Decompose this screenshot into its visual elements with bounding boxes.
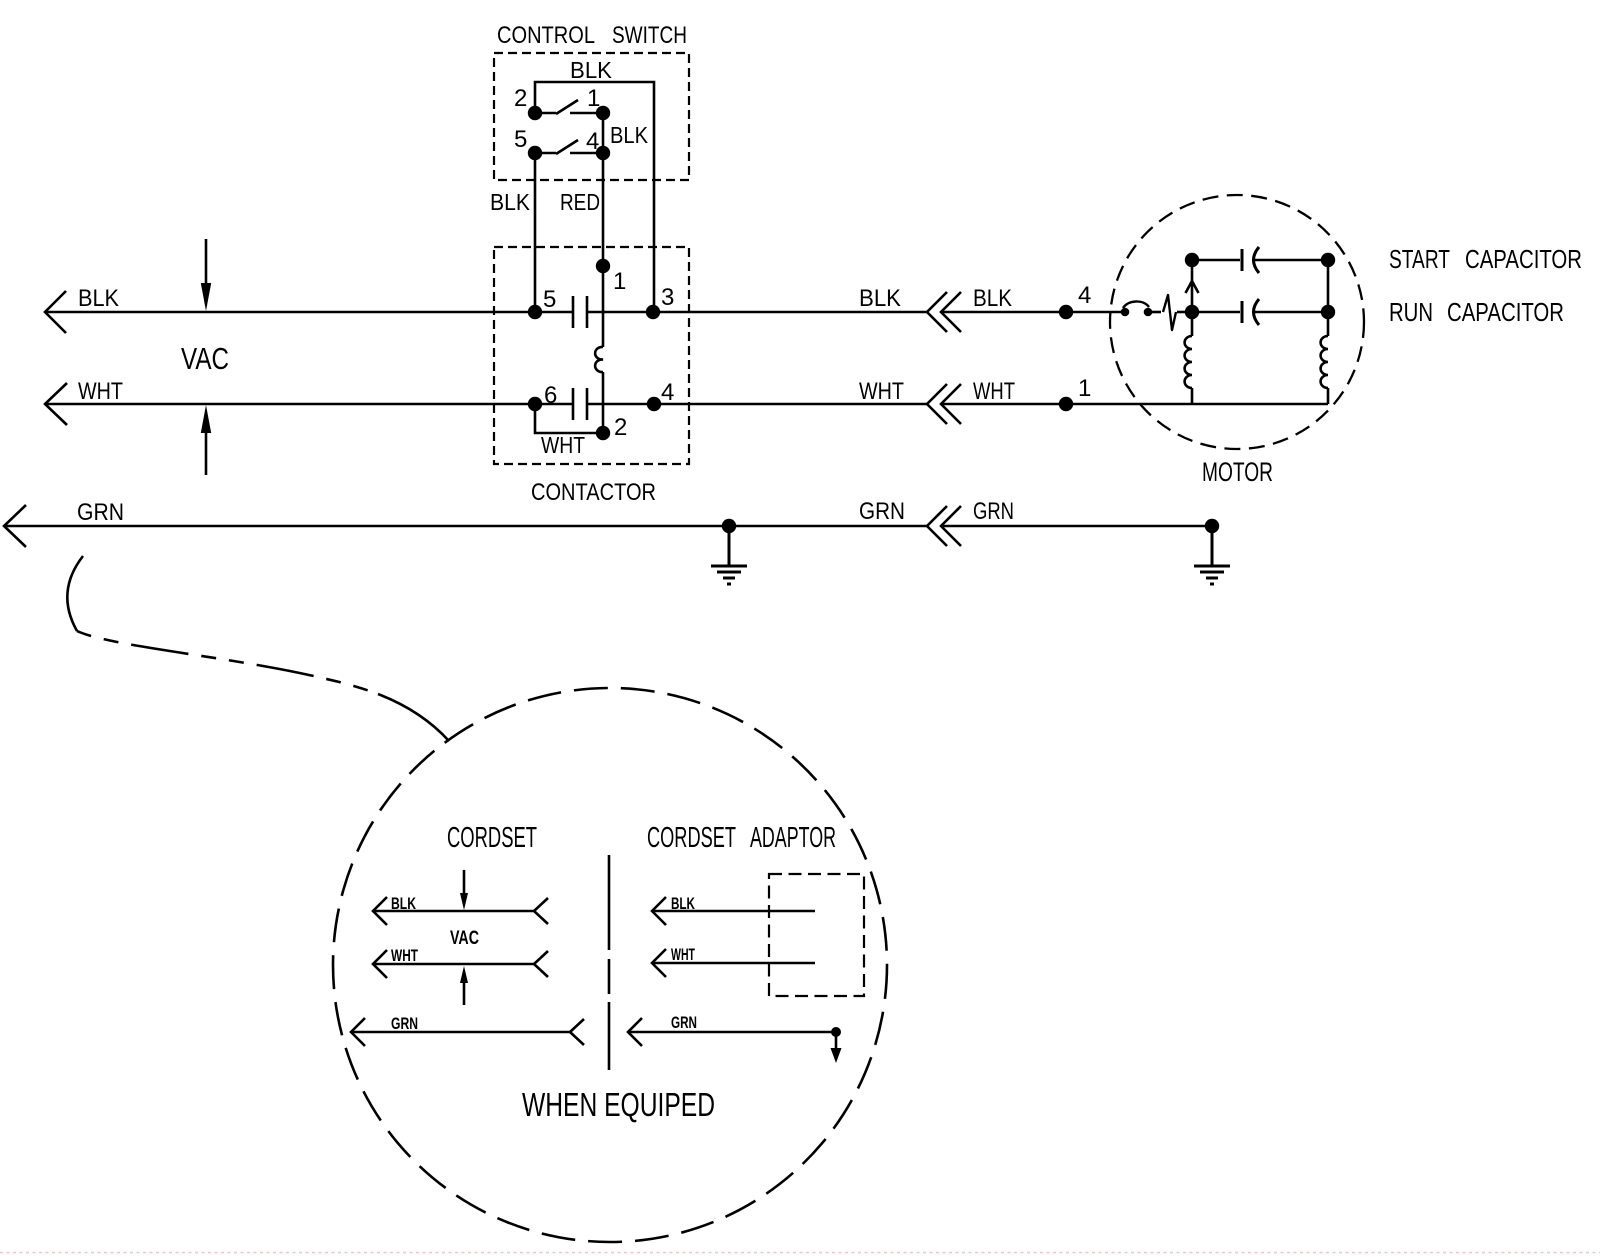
leader solid [67, 556, 83, 631]
cordset GRN chevron [570, 1019, 584, 1045]
adaptor BLK arrowhead [652, 897, 666, 925]
bottom faint line [0, 1252, 1600, 1254]
motor mid right node [1321, 305, 1335, 319]
motor circle [1110, 195, 1364, 449]
node 1 [596, 106, 610, 120]
split line [608, 855, 611, 1070]
START CAPACITOR label [1389, 244, 1582, 274]
start capacitor [1192, 247, 1328, 273]
pin labels switch [514, 85, 600, 155]
adaptor WHT wire [652, 962, 815, 965]
WHT line arrow [45, 383, 67, 425]
cordset BLK chevron [534, 898, 548, 924]
svg-text:GRN: GRN [391, 1014, 418, 1033]
node 5 contactor [528, 305, 542, 319]
cordset BLK arrowhead [373, 897, 387, 925]
node pin1 [1059, 397, 1073, 411]
adaptor GRN wire [628, 1031, 836, 1034]
svg-text:BLK: BLK [973, 285, 1012, 312]
leader dashed [77, 631, 378, 694]
wire node1 to coil [602, 266, 605, 347]
adaptor box [769, 874, 864, 996]
wire WHT main mid [587, 403, 927, 406]
adaptor GRN arrowhead [628, 1018, 642, 1046]
connector WHT [927, 384, 961, 424]
svg-text:5: 5 [543, 286, 556, 313]
svg-text:WHT: WHT [671, 945, 695, 964]
svg-text:1: 1 [613, 268, 626, 295]
wire WHT main left [45, 403, 573, 406]
svg-text:GRN: GRN [671, 1013, 697, 1032]
arrow head up [1186, 281, 1199, 293]
svg-text:BLK: BLK [490, 189, 531, 215]
svg-text:VAC: VAC [450, 928, 479, 949]
switch contact 5-4 [535, 140, 603, 154]
cordset WHT arrowhead [373, 950, 387, 978]
start winding [1185, 312, 1192, 404]
adaptor GRN dot [831, 1027, 841, 1037]
svg-text:2: 2 [614, 414, 627, 441]
coil contactor [595, 347, 603, 372]
svg-text:2: 2 [514, 85, 527, 112]
svg-text:GRN: GRN [973, 498, 1014, 525]
CORDSET ADAPTOR title [647, 822, 836, 854]
svg-text:WHT: WHT [973, 378, 1015, 405]
svg-text:WHT: WHT [391, 946, 418, 965]
VAC down arrow [205, 239, 208, 286]
contact bottom bars [573, 388, 587, 420]
svg-text:VAC: VAC [181, 341, 229, 376]
wire dot to protector [1152, 311, 1161, 314]
svg-text:WHT: WHT [859, 378, 904, 405]
node 1 contactor [596, 259, 610, 273]
svg-text:GRN: GRN [859, 498, 905, 525]
svg-text:MOTOR: MOTOR [1202, 457, 1273, 487]
connector GRN [927, 506, 961, 546]
svg-text:BLK: BLK [391, 894, 417, 913]
motor switch arc [1123, 301, 1149, 308]
wire GRN main [4, 525, 927, 528]
thermal protector squiggle [1163, 295, 1176, 330]
ground right [1194, 526, 1230, 584]
wire GRN right [941, 525, 1212, 528]
svg-text:RED: RED [560, 189, 600, 215]
cordset WHT wire [373, 963, 534, 966]
wire BLK right [941, 311, 1124, 314]
wire mid to top node [1191, 260, 1194, 312]
wire right vertical [1327, 260, 1330, 336]
GRN line arrow [4, 505, 26, 547]
wire BLK main left [45, 311, 573, 314]
svg-text:WHT: WHT [78, 378, 123, 405]
ground right node [1205, 519, 1219, 533]
svg-text:BLK: BLK [610, 122, 649, 148]
leader tail [378, 694, 449, 741]
svg-text:CONTACTOR: CONTACTOR [531, 479, 656, 506]
motor top node [1185, 253, 1199, 267]
motor mid node [1185, 305, 1199, 319]
svg-text:4: 4 [661, 379, 674, 406]
svg-text:ADAPTOR: ADAPTOR [750, 822, 836, 854]
svg-text:CAPACITOR: CAPACITOR [1447, 297, 1564, 327]
node 3 contactor [646, 305, 660, 319]
run winding [1321, 336, 1328, 404]
motor top right node [1321, 253, 1335, 267]
ground left node [722, 519, 736, 533]
node pin4 [1059, 305, 1073, 319]
contactor box [494, 247, 689, 464]
node 5 [528, 146, 542, 160]
adaptor GRN stem [835, 1032, 838, 1048]
svg-text:WHT: WHT [541, 432, 585, 458]
cordset GRN arrowhead [351, 1018, 365, 1046]
motor switch dot b [1144, 308, 1153, 317]
svg-text:CORDSET: CORDSET [647, 822, 736, 854]
BLK line arrow [45, 291, 66, 333]
node 6 contactor [528, 397, 542, 411]
wire node1 to node4 [602, 113, 605, 153]
switch contact 2-1 [535, 100, 603, 114]
svg-text:GRN: GRN [77, 499, 124, 526]
node 4 contactor [647, 397, 661, 411]
svg-text:3: 3 [661, 284, 674, 311]
control switch title [497, 22, 687, 49]
adaptor BLK wire [652, 910, 815, 913]
wire node2 to node3 via top [535, 82, 654, 312]
cordset GRN wire [351, 1031, 570, 1034]
wire node6 to node2 [535, 404, 603, 433]
cordset WHT chevron [534, 951, 548, 977]
svg-text:WHEN EQUIPED: WHEN EQUIPED [522, 1086, 715, 1123]
svg-text:BLK: BLK [671, 894, 695, 913]
svg-text:SWITCH: SWITCH [612, 22, 687, 49]
node 2 [528, 106, 542, 120]
control switch box [494, 53, 689, 180]
svg-text:5: 5 [514, 126, 527, 153]
ground left [711, 526, 747, 584]
svg-text:BLK: BLK [859, 285, 901, 312]
wire BLK down from node5 [534, 153, 537, 312]
wire protector to node [1177, 311, 1192, 314]
svg-text:CONTROL: CONTROL [497, 22, 595, 49]
adaptor WHT arrowhead [652, 949, 666, 977]
detail circle [333, 688, 887, 1242]
cordset BLK wire [373, 910, 534, 913]
svg-text:4: 4 [1078, 282, 1091, 309]
run capacitor [1192, 299, 1328, 325]
svg-text:4: 4 [586, 128, 599, 155]
svg-text:1: 1 [587, 85, 600, 112]
svg-text:CAPACITOR: CAPACITOR [1465, 244, 1582, 274]
cordset down arrow [463, 870, 466, 895]
adaptor GRN down arrow [831, 1048, 842, 1063]
svg-text:START: START [1389, 244, 1450, 274]
contact top bars [573, 296, 587, 328]
wire coil to node2 [602, 372, 605, 433]
wire BLK main mid [587, 311, 927, 314]
RUN CAPACITOR label [1389, 297, 1564, 327]
wire RED down from node4 [602, 153, 605, 266]
node 4 [596, 146, 610, 160]
wire WHT right [941, 403, 1328, 406]
svg-text:1: 1 [1078, 375, 1091, 402]
svg-text:CORDSET: CORDSET [447, 822, 537, 854]
cordset up arrow [463, 981, 466, 1005]
svg-text:RUN: RUN [1389, 297, 1433, 327]
connector BLK [927, 292, 961, 332]
node 2 contactor [596, 426, 610, 440]
svg-text:BLK: BLK [78, 285, 119, 312]
VAC up arrow [205, 430, 208, 475]
svg-text:BLK: BLK [570, 57, 613, 83]
motor switch dot a [1121, 308, 1130, 317]
